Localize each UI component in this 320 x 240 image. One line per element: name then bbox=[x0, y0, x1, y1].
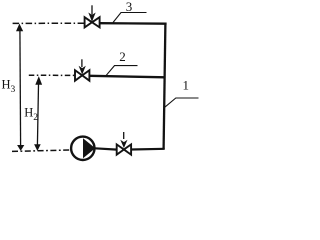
wire: middle level dash-dot line (level 2) bbox=[29, 74, 75, 76]
leader line for label 1 bbox=[165, 98, 199, 107]
dimension H2 line bbox=[34, 76, 42, 151]
wire: riser pipe 1 (vertical) bbox=[164, 23, 166, 149]
dimension H3 line bbox=[16, 24, 24, 151]
valve (bottom, unlabeled) bbox=[117, 132, 131, 155]
wire: bottom pipe from valve to riser corner bbox=[131, 148, 164, 151]
leader line for label 2 bbox=[106, 66, 138, 77]
wire: top pipe from valve 3 to riser bbox=[100, 22, 167, 25]
wire: pump outlet to bottom valve bbox=[95, 148, 117, 149]
valve 2 bbox=[75, 59, 89, 80]
wire: middle pipe from valve 2 to riser bbox=[90, 76, 165, 78]
svg-text:2: 2 bbox=[119, 49, 126, 64]
wire: bottom datum dash-dot line bbox=[12, 150, 71, 151]
valve 3 bbox=[85, 5, 100, 27]
leader line for label 3 bbox=[113, 13, 147, 23]
wire: top level dash-dot line (level 3) bbox=[13, 22, 84, 24]
svg-text:1: 1 bbox=[183, 77, 190, 92]
svg-text:3: 3 bbox=[126, 0, 133, 14]
pump P1 bbox=[71, 137, 95, 160]
